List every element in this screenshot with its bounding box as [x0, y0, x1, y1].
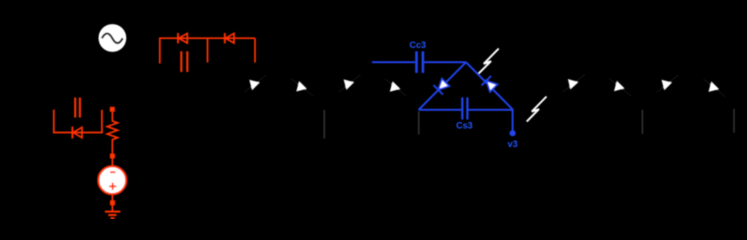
- AC source V1 body: [99, 24, 127, 52]
- wire: red top rail of input doubler: [160, 37, 255, 39]
- wire: lead out of DC source: [111, 195, 113, 202]
- wire: red left loop vertical right: [101, 110, 103, 133]
- current arrow I7: [662, 80, 673, 91]
- wire: faint diagonal of section 3: [339, 75, 361, 93]
- wire: bridge bottom right segment: [468, 109, 513, 111]
- wire: blue input rail: [372, 61, 415, 63]
- wire: faint diagonal of section 5: [563, 74, 585, 92]
- ground: [105, 211, 121, 213]
- wire: faint diagonal of section 7: [657, 75, 679, 93]
- diode D2 triangle: [225, 33, 234, 43]
- DC source V2 body: [98, 166, 126, 194]
- wire: faint diagonal of section 2: [291, 79, 313, 97]
- diode D2 cathode bar: [224, 33, 226, 43]
- current arrow I3: [344, 79, 355, 90]
- wire: red right stub: [254, 38, 256, 62]
- wire: v3 drop: [512, 110, 514, 131]
- wire: blue rail from Cc3 to peak: [424, 61, 466, 63]
- wire: faint diagonal of section 1: [244, 75, 266, 93]
- wire: lead into DC source: [111, 159, 113, 167]
- current arrow I2: [296, 81, 307, 92]
- shunt stub (gray) at section 1: [323, 110, 325, 139]
- node square below V2: [110, 200, 115, 205]
- capacitor C2 plates: [74, 98, 76, 118]
- wire: bridge left slope: [419, 62, 466, 110]
- wire: lead to ground: [111, 205, 113, 211]
- svg-text:Cs3: Cs3: [456, 121, 473, 131]
- wire: faint diagonal of section 8: [704, 79, 726, 97]
- current arrow I8: [709, 81, 720, 92]
- node square between R1 and V2: [110, 154, 115, 159]
- shunt stub (gray) at section 6: [641, 110, 643, 134]
- diode D5 cathode bar: [482, 76, 492, 86]
- diode D4 cathode bar: [433, 85, 443, 95]
- diode D4 triangle (left slope): [438, 79, 449, 90]
- diode D1 cathode bar: [177, 33, 179, 43]
- wire: red left loop vertical left: [53, 110, 55, 134]
- current arrow I5: [568, 79, 579, 90]
- svg-text:v3: v3: [508, 139, 518, 149]
- current arrow I4: [390, 81, 401, 92]
- wire: bridge right slope: [466, 62, 513, 110]
- resistor R1: [107, 112, 117, 154]
- diode D3 cathode bar: [71, 127, 73, 139]
- current arrow I1: [249, 80, 260, 91]
- capacitor Cs3 plates: [461, 97, 463, 119]
- wire: bridge bottom left segment: [419, 109, 462, 111]
- DC source V2 minus sign: [110, 171, 115, 173]
- wire: red middle stub: [207, 38, 209, 62]
- diode D5 triangle (right slope): [486, 81, 497, 92]
- node v3 dot: [509, 130, 515, 136]
- wire: faint diagonal of section 6: [609, 78, 631, 96]
- shunt stub (gray) at section 8: [733, 109, 735, 133]
- wire: faint diagonal of section 4: [385, 79, 407, 97]
- capacitor C1 plates (below D1): [180, 51, 182, 72]
- break symbol (lightning bolt 1): [479, 49, 499, 74]
- current arrow I6: [614, 81, 625, 92]
- AC source V1 sine wave: [102, 34, 123, 44]
- DC source V2 plus sign: [109, 185, 116, 187]
- diode D3 triangle: [73, 127, 82, 137]
- diode D1 triangle: [179, 33, 188, 43]
- svg-text:Cc3: Cc3: [410, 40, 427, 50]
- break symbol (lightning bolt 2): [527, 97, 547, 122]
- wire: red left stub: [159, 38, 161, 64]
- shunt stub (gray) below bridge left corner: [418, 112, 420, 135]
- node square at resistor top: [110, 107, 115, 112]
- capacitor Cc3 plates: [415, 51, 418, 73]
- wire: red left loop bottom: [53, 132, 103, 134]
